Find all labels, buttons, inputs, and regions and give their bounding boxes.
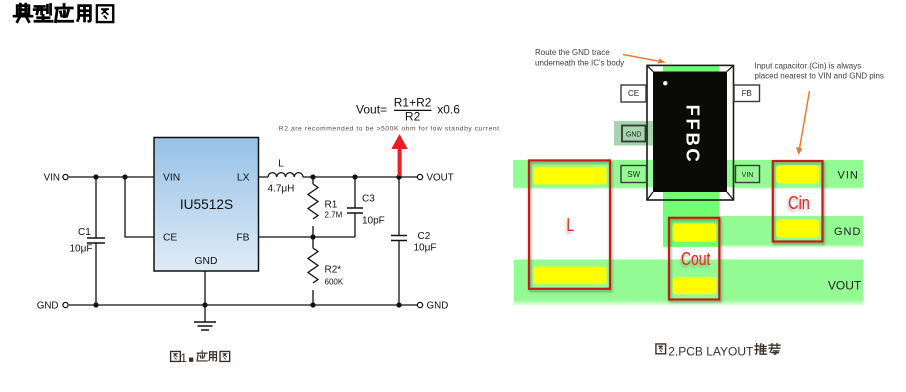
svg-text:VOUT: VOUT <box>828 279 862 293</box>
svg-text:10μF: 10μF <box>70 244 93 255</box>
svg-text:Input capacitor (Cin) is alway: Input capacitor (Cin) is always <box>755 62 862 71</box>
svg-text:10μF: 10μF <box>414 243 437 254</box>
svg-text:CE: CE <box>628 89 639 98</box>
svg-text:R1: R1 <box>325 200 338 211</box>
svg-text:FFBC: FFBC <box>683 105 704 165</box>
svg-text:C1: C1 <box>78 227 91 238</box>
svg-text:GND: GND <box>37 300 59 311</box>
svg-text:VIN: VIN <box>44 172 60 183</box>
svg-text:2.7M: 2.7M <box>325 211 343 220</box>
svg-text:placed nearest to VIN and GND: placed nearest to VIN and GND pins <box>755 71 884 80</box>
svg-text:FB: FB <box>742 89 752 98</box>
svg-text:600K: 600K <box>325 278 344 287</box>
svg-text:GND: GND <box>427 300 449 311</box>
svg-text:LX: LX <box>237 173 250 184</box>
svg-text:GND: GND <box>195 256 218 267</box>
svg-text:SW: SW <box>627 170 640 179</box>
svg-text:underneath the IC's body: underneath the IC's body <box>535 59 624 68</box>
svg-text:CE: CE <box>163 233 177 244</box>
svg-text:GND: GND <box>626 131 642 138</box>
svg-text:VIN: VIN <box>742 172 754 179</box>
svg-text:2.PCB LAYOUT: 2.PCB LAYOUT <box>668 345 754 359</box>
svg-text:Cin: Cin <box>788 192 810 213</box>
svg-text:x0.6: x0.6 <box>437 102 460 116</box>
svg-text:·R2 are recommended to be >500: ·R2 are recommended to be >500K ohm for … <box>276 126 500 133</box>
svg-text:Cout: Cout <box>681 248 711 269</box>
svg-text:R2*: R2* <box>325 265 342 276</box>
svg-text:FB: FB <box>236 233 249 244</box>
svg-text:GND: GND <box>834 226 861 238</box>
svg-text:VIN: VIN <box>163 173 180 184</box>
svg-text:4.7μH: 4.7μH <box>268 184 295 195</box>
svg-text:L: L <box>278 159 284 170</box>
svg-text:1: 1 <box>180 351 187 365</box>
svg-text:VOUT: VOUT <box>427 172 454 183</box>
svg-text:C3: C3 <box>362 194 375 205</box>
svg-text:10pF: 10pF <box>362 216 385 227</box>
svg-text:IU5512S: IU5512S <box>180 197 233 212</box>
svg-text:C2: C2 <box>418 231 431 242</box>
svg-text:Vout=: Vout= <box>356 102 387 116</box>
svg-text:VIN: VIN <box>838 170 859 182</box>
svg-text:R2: R2 <box>405 110 421 124</box>
svg-text:R1+R2: R1+R2 <box>394 96 432 110</box>
svg-text:Route the GND trace: Route the GND trace <box>535 48 610 57</box>
svg-text:L: L <box>566 214 574 235</box>
